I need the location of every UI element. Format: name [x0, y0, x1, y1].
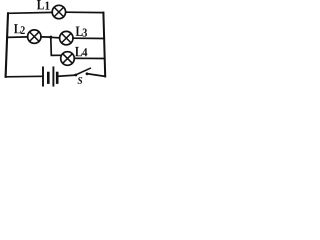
wire L3 to right rail — [73, 37, 104, 39]
left rail wire — [6, 13, 8, 77]
wire top-right segment — [66, 11, 104, 13]
wire top-left segment — [8, 11, 52, 14]
lamp L1 — [52, 5, 65, 18]
battery B1 plate 1 long — [42, 67, 44, 85]
wire junction drop to L4 branch — [51, 37, 61, 55]
right rail wire — [103, 13, 105, 77]
label L1 — [37, 0, 50, 10]
battery B1 plate 4 short thick — [56, 73, 59, 83]
switch S terminal dot right — [86, 72, 89, 75]
label S — [78, 77, 83, 84]
label L2 — [14, 24, 25, 34]
label L4 — [75, 47, 87, 56]
wire L2 to junction — [41, 36, 51, 38]
lamp L2 — [28, 30, 41, 43]
label L3 — [76, 27, 87, 37]
bottom wire left of battery — [6, 75, 42, 78]
bottom wire right of switch — [88, 74, 105, 77]
wire junction to L3 — [51, 36, 60, 39]
lamp L4 — [61, 52, 75, 66]
battery B1 plate 2 short thick — [47, 73, 50, 83]
bottom wire between battery and switch — [59, 75, 75, 76]
battery B1 plate 3 long — [52, 67, 54, 85]
wire middle branch from left rail — [7, 36, 28, 39]
lamp L3 — [60, 31, 73, 44]
switch S terminal dot left — [74, 74, 77, 77]
wire L4 to right rail — [75, 57, 105, 59]
switch S lever — [76, 68, 90, 74]
node junction dot — [49, 36, 52, 39]
